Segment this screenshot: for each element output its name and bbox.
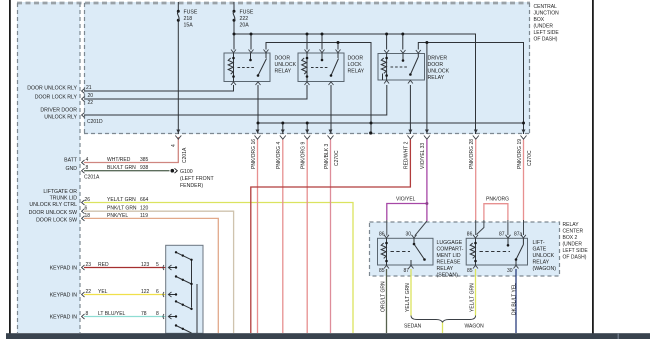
svg-text:CENTER: CENTER [563,229,584,235]
svg-text:(LEFT FRONT: (LEFT FRONT [180,176,214,182]
svg-text:30: 30 [507,268,513,274]
keypad entry stubs [169,268,176,317]
svg-text:938: 938 [140,165,149,171]
dashed actuator line [480,251,511,253]
wire PNK/ORG 19 [523,140,525,221]
svg-text:UNLOCK RLY: UNLOCK RLY [44,115,77,121]
svg-text:SEDAN: SEDAN [404,324,422,330]
wire: lock relay switch output down to C270C [330,85,332,134]
svg-text:PNK/ORG 16: PNK/ORG 16 [251,139,257,169]
wire YEL/LT GRN sedan [410,269,412,316]
svg-text:RELAY: RELAY [428,75,445,81]
svg-text:FUSE: FUSE [184,10,198,16]
junction dots [233,33,526,135]
wire: GEM pin 21 to unlock relay coil [84,85,234,91]
svg-text:78: 78 [141,311,147,317]
pin chevrons [231,50,269,86]
svg-text:LEFT SIDE: LEFT SIDE [563,248,589,254]
svg-text:PNK/ORG: PNK/ORG [486,197,509,203]
wire YEL/LT GRN wagon [475,269,477,316]
svg-text:RELAY: RELAY [533,260,550,266]
svg-text:6: 6 [156,289,159,295]
svg-text:TRUNK LID: TRUNK LID [50,196,78,202]
svg-text:JUNCTION: JUNCTION [534,11,560,17]
svg-text:GATE: GATE [533,247,547,253]
wire: bus C (y=123) [258,122,524,124]
wire: bus A stub to unlock relay pin 85 [250,34,252,50]
svg-text:YEL/LT GRN: YEL/LT GRN [107,197,136,203]
svg-text:(UNDER: (UNDER [534,24,554,30]
wire: bus B stub to lock relay switch pin [337,43,339,50]
central junction box dashed right edge [529,3,531,134]
svg-text:C270C: C270C [527,150,533,166]
wire PNK/BLK 3 [330,140,332,334]
keypad bus vertical 1 [191,260,193,308]
connector C201A pin 4 [175,136,181,140]
svg-text:120: 120 [140,206,149,212]
svg-text:23: 23 [86,262,92,268]
wire PNK/ORG bridge 86-87 [484,204,508,220]
svg-text:MENT LID: MENT LID [437,253,461,259]
wire: bus A stub to driver relay coil pin [386,34,388,50]
keypad switch 1 [176,252,192,259]
wire: bus A stub to driver relay mid pin [402,34,404,50]
svg-text:87: 87 [404,268,410,274]
wire: GEM driver door unlock rly line [84,85,387,115]
svg-text:UNLOCK: UNLOCK [428,69,450,75]
switch arm [411,238,425,265]
svg-text:87: 87 [499,232,505,238]
svg-text:COMPART-: COMPART- [437,247,464,253]
svg-text:WAGON: WAGON [465,324,485,330]
svg-text:21: 21 [86,85,92,91]
frame left vertical line [9,0,11,334]
node: busA pin85 [250,33,253,36]
node: busA lock mid [321,33,324,36]
dashed actuator line [391,251,411,253]
svg-text:(SEDAN): (SEDAN) [437,273,459,279]
svg-text:KEYPAD IN: KEYPAD IN [50,315,78,321]
switch arm [410,54,418,75]
connector arrowheads above junction box boundary [176,130,525,134]
switch arm [516,238,523,265]
svg-text:YEL/LT GRN: YEL/LT GRN [469,283,475,312]
fuse 222 [233,10,236,22]
sedan/wagon merge brace [411,316,476,323]
svg-text:G100: G100 [180,169,193,175]
wire: bus A stub to lock relay mid pin [321,34,323,50]
svg-text:22: 22 [86,289,92,295]
svg-text:DRIVER DOOR: DRIVER DOOR [40,108,77,114]
connector C270C pin 9 [304,136,310,140]
svg-text:87a: 87a [514,232,523,238]
wire: fuse 222 feed vertical [233,2,235,50]
svg-text:123: 123 [141,262,150,268]
svg-text:85: 85 [379,268,385,274]
svg-text:PNK/ORG 19: PNK/ORG 19 [517,139,523,169]
svg-text:DK BL/LT YEL: DK BL/LT YEL [511,283,517,315]
GEM wire name labels [98,157,159,317]
central junction box dashed left edge [84,3,86,134]
relay center box 2 fill [370,222,560,276]
svg-text:8: 8 [86,311,89,317]
central junction box fill [84,2,530,134]
keypad bus vertical 2 [196,284,198,333]
wire: unlock relay switch output down to C270C [257,85,259,134]
svg-text:GND: GND [65,166,77,172]
connector C270C pin 33 [424,136,430,140]
connector C270C pin 16 [255,136,261,140]
coil (zigzag) [302,58,307,74]
connector C270C pin 2 [407,136,413,140]
wire ORG/LT GRN (sedan release) [386,269,388,333]
dashed actuator line [238,67,256,69]
node: busC right end [522,122,525,125]
svg-text:22: 22 [88,100,94,106]
svg-text:C201A: C201A [84,175,100,181]
wire: black segments inside relay center box [387,220,524,236]
svg-text:18: 18 [85,213,91,219]
svg-text:YEL/LT GRN: YEL/LT GRN [405,283,411,312]
node: busB lock switch [337,41,340,44]
connector C270C pin 28 [473,136,479,140]
connector C270C pin 4 [280,136,286,140]
bottom toolbar bar [6,333,650,339]
node: vio/yel branch dot [425,202,428,205]
svg-text:FENDER): FENDER) [180,183,203,189]
svg-text:4: 4 [171,144,177,147]
svg-text:YEL: YEL [98,289,108,295]
svg-text:PNK/YEL: PNK/YEL [107,213,128,219]
keypad switch 3 [176,301,192,309]
svg-text:DOOR LOCK SW: DOOR LOCK SW [36,218,77,224]
node: busA lock coil [306,33,309,36]
svg-text:VIO/YEL 33: VIO/YEL 33 [420,143,426,169]
svg-text:15A: 15A [184,23,194,29]
wire: bus C stub down to PNK/ORG 4 connector [282,123,284,134]
svg-text:CENTRAL: CENTRAL [534,4,558,10]
wire: fuse 218 feed vertical [177,2,179,134]
ground G100 [171,168,215,189]
GEM box dashed left edge [17,3,19,333]
coil (zigzag) [228,58,233,74]
svg-text:UNLOCK: UNLOCK [275,62,297,68]
svg-text:BOX: BOX [534,17,545,23]
svg-text:UNLOCK RLY CTRL: UNLOCK RLY CTRL [29,202,77,208]
svg-text:LIFT-: LIFT- [533,240,545,246]
svg-text:KEYPAD IN: KEYPAD IN [50,266,78,272]
wire: bus C stub down to PNK/ORG 9 connector [306,123,308,134]
svg-text:PNK/ORG 9: PNK/ORG 9 [301,142,307,169]
svg-text:LOCK: LOCK [348,62,363,68]
svg-text:DOOR: DOOR [428,62,444,68]
svg-text:RELAY: RELAY [563,222,580,228]
pin 87 stub [507,238,509,245]
svg-text:(WAGON): (WAGON) [533,266,557,272]
node: busA driver mid [401,33,404,36]
svg-text:RED: RED [98,262,109,268]
svg-text:BOX 2: BOX 2 [563,235,578,241]
svg-text:OF DASH): OF DASH) [534,37,558,43]
svg-text:LIFTGATE OR: LIFTGATE OR [43,189,77,195]
svg-text:664: 664 [140,197,149,203]
svg-text:RELAY: RELAY [437,266,454,272]
svg-text:PNK/LT GRN: PNK/LT GRN [107,206,137,212]
wire: bus A stub to lock relay coil pin [306,34,308,50]
svg-text:RELEASE: RELEASE [437,260,461,266]
svg-text:385: 385 [140,157,149,163]
svg-text:119: 119 [140,213,148,219]
svg-text:DOOR UNLOCK SW: DOOR UNLOCK SW [29,210,78,216]
node: fuse222/busA [233,33,236,36]
node: busC pnk/org9 [306,122,309,125]
svg-text:DOOR: DOOR [275,56,291,62]
wire RED 123 [84,267,169,269]
wire DK BL/LT YEL [515,269,517,333]
wire VIO/YEL 33 [387,140,427,222]
mid pin stub [250,53,252,60]
GEM box dashed right edge [79,3,81,333]
svg-text:5: 5 [156,262,159,268]
coil (zigzag) [381,58,386,73]
switch arm [258,53,267,76]
wire: bus B left segment (unlock output) [266,43,371,133]
svg-text:PNK/BLK 3: PNK/BLK 3 [324,143,330,169]
node: busC x371 [370,122,373,125]
svg-text:PNK/ORG 28: PNK/ORG 28 [469,139,475,169]
svg-text:86: 86 [379,232,385,238]
GEM module box (left, light blue) [17,2,80,333]
svg-text:20A: 20A [240,23,250,29]
svg-text:8: 8 [156,311,159,317]
node: busC pnk/org4 [281,122,284,125]
node: busA driver coil [385,33,388,36]
svg-text:(UNDER: (UNDER [563,242,583,248]
svg-text:DRIVER: DRIVER [428,56,448,62]
svg-text:UNLOCK: UNLOCK [533,253,555,259]
svg-text:20: 20 [88,93,94,99]
svg-text:WHT/RED: WHT/RED [107,157,131,163]
wire: vio/yel feed from bus B down to C270C [426,43,428,135]
svg-text:DOOR: DOOR [348,56,364,62]
svg-text:RELAY: RELAY [348,69,365,75]
node: busC left end [257,122,260,125]
svg-text:C201D: C201D [87,119,103,125]
svg-text:BATT: BATT [64,158,78,164]
svg-text:4: 4 [86,157,89,163]
connector C270C pin 3 [328,136,334,140]
wire PNK/ORG 9 [306,140,308,334]
wire LT BLU/YEL 78 [84,316,169,318]
wire: driver relay switch output down to C270C [409,85,411,134]
wire: GEM pin 20 to lock relay coil [84,85,307,99]
switch arm [331,53,339,76]
keypad entry chevrons [163,265,172,319]
mid pin stub [402,54,404,61]
wire YEL/LT GRN merged drop [442,323,444,334]
svg-text:LEFT SIDE: LEFT SIDE [534,30,560,36]
dashed actuator line [391,66,408,68]
svg-text:DOOR LOCK RLY: DOOR LOCK RLY [35,95,78,101]
node: busB vio/yel tap [425,41,428,44]
svg-text:8: 8 [86,165,89,171]
svg-text:LUGGAGE: LUGGAGE [437,240,463,246]
coil (zigzag) [470,243,475,258]
svg-text:218: 218 [184,16,193,22]
wire YEL 122 [84,294,169,296]
svg-text:VIO/YEL: VIO/YEL [396,197,416,203]
node: boundary dot x371 [369,131,372,134]
wire RED/WHT 2 [251,140,411,334]
wire PNK/ORG 4 [282,140,284,334]
svg-text:86: 86 [467,232,473,238]
wire PNK/YEL 119 [84,218,218,333]
svg-text:OF DASH): OF DASH) [563,255,587,261]
svg-text:FUSE: FUSE [240,10,254,16]
wire YEL/LT GRN 664 [84,203,353,334]
svg-text:6: 6 [85,206,88,212]
svg-text:C270C: C270C [334,150,340,166]
wire: bus B right segment [418,43,523,135]
wire PNK/ORG 16 [257,140,259,334]
wire PNK/ORG 28 [475,140,477,221]
dashed actuator line [311,67,329,69]
svg-text:PNK/ORG 4: PNK/ORG 4 [276,142,282,169]
svg-text:KEYPAD IN: KEYPAD IN [50,293,78,299]
svg-text:30: 30 [406,232,412,238]
svg-text:122: 122 [141,289,150,295]
wire BLK/LT GRN 938 [84,170,170,172]
svg-text:LT BLU/YEL: LT BLU/YEL [98,311,126,317]
wire PNK/LT GRN 120 [84,211,234,333]
frame right vertical line [592,0,594,334]
keypad switch 2 [176,277,192,285]
connector C270C pin 19 [521,136,527,140]
wire: bus A (battery bus y=35) [234,34,476,134]
fuse 218 [177,10,180,22]
relay center box 2 dashed border [370,222,560,276]
svg-text:85: 85 [467,268,473,274]
svg-text:RELAY: RELAY [275,69,292,75]
mid pin stub [321,53,323,60]
svg-text:RED/WHT 2: RED/WHT 2 [404,141,410,169]
svg-text:DOOR UNLOCK RLY: DOOR UNLOCK RLY [27,86,77,92]
svg-text:C201A: C201A [182,147,188,163]
svg-text:BLK/LT GRN: BLK/LT GRN [107,165,136,171]
svg-text:222: 222 [240,16,249,22]
central junction box dashed bottom edge [84,133,530,135]
coil (zigzag) [381,243,386,258]
wire WHT/RED 385 [84,137,178,163]
GEM pin numbers [85,85,94,317]
svg-text:26: 26 [85,197,91,203]
svg-text:ORG/LT GRN: ORG/LT GRN [380,281,386,312]
top dashed border (bold) [17,2,530,5]
keypad switch 4 [176,326,192,334]
GEM edge connector chevrons [82,89,85,320]
